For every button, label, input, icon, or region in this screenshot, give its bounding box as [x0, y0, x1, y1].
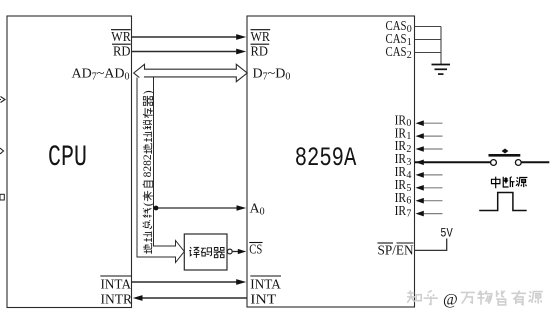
label IR1	[395, 125, 412, 142]
wire IR2	[423, 148, 443, 150]
svg-text:0: 0	[406, 118, 411, 129]
label CAS1	[386, 31, 412, 48]
arrowhead IR3	[416, 160, 424, 166]
wire SP/EN to 5V	[415, 239, 447, 251]
svg-text:7: 7	[406, 209, 411, 220]
label WR right	[251, 30, 271, 45]
watermark 知乎 @万物皆有源	[407, 290, 543, 308]
label INTA left	[101, 278, 132, 293]
label IR6	[395, 190, 412, 207]
wire CAS0	[415, 26, 441, 28]
svg-text:(: (	[141, 202, 155, 206]
label INTA right	[250, 278, 281, 293]
label IR2	[395, 138, 412, 155]
wire INTA	[132, 281, 239, 283]
switch actuator diamond	[502, 149, 509, 154]
label CAS2	[386, 44, 412, 61]
wire RD	[132, 51, 239, 53]
switch blade	[489, 154, 521, 157]
CPU left edge stub square	[0, 194, 4, 200]
svg-text:CAS: CAS	[386, 44, 407, 59]
svg-text:CS: CS	[249, 243, 262, 258]
svg-text:INTA: INTA	[250, 278, 281, 293]
svg-text:2: 2	[406, 144, 411, 155]
CPU label	[48, 140, 87, 174]
switch contact right	[515, 160, 521, 166]
CPU left edge stub arrow 2	[0, 148, 4, 154]
label 5V	[440, 225, 453, 240]
label CAS0	[386, 18, 412, 35]
wire IR6	[423, 200, 443, 202]
ground	[432, 65, 451, 75]
wire switch right	[521, 161, 549, 163]
decoder box	[184, 234, 227, 270]
svg-text:): )	[141, 90, 155, 94]
svg-text:SP/EN: SP/EN	[378, 244, 414, 259]
svg-text:2: 2	[407, 50, 412, 61]
svg-text:INTA: INTA	[101, 278, 132, 293]
pulse waveform	[479, 193, 527, 211]
label IR7	[395, 203, 412, 220]
label IR3	[395, 151, 412, 168]
svg-text:INT: INT	[250, 292, 276, 307]
label WR left	[111, 30, 131, 45]
data bus double arrow AD7~AD0 / D7~D0	[134, 64, 248, 81]
svg-text:6: 6	[406, 196, 411, 207]
svg-text:AD7~AD0: AD7~AD0	[72, 67, 130, 83]
wire IR5	[423, 187, 443, 189]
label 中断源	[491, 177, 527, 189]
label INT right	[250, 292, 276, 307]
wire CAS2	[415, 52, 441, 54]
8259A label	[295, 144, 357, 174]
wire IR3 to switch	[415, 161, 491, 163]
label INTR left	[101, 292, 133, 307]
svg-text:8259A: 8259A	[295, 144, 357, 174]
wire A0	[154, 207, 240, 209]
svg-text:5V: 5V	[440, 225, 453, 240]
svg-text:WR: WR	[251, 30, 271, 45]
label CS	[249, 243, 262, 258]
svg-text:1: 1	[406, 131, 411, 142]
label RD right	[251, 45, 269, 60]
wire CAS1	[415, 39, 441, 41]
wire CS	[232, 251, 240, 253]
wire IR4	[423, 174, 443, 176]
label IR0	[395, 112, 412, 129]
label IR5	[395, 177, 412, 194]
label AD7~AD0	[72, 67, 130, 83]
svg-text:3: 3	[406, 157, 411, 168]
svg-text:RD: RD	[251, 45, 269, 60]
wire IR0	[423, 122, 443, 124]
junction dot A0	[154, 206, 159, 211]
svg-text:WR: WR	[111, 30, 131, 45]
svg-text:@: @	[443, 292, 458, 309]
label SP/EN	[378, 244, 414, 259]
wire IR1	[423, 135, 443, 137]
svg-text:D7~D0: D7~D0	[253, 67, 291, 83]
wire IR7	[423, 213, 443, 215]
label A0	[250, 202, 265, 218]
CPU left edge stub arrow 1	[0, 99, 1, 101]
wire INT	[140, 297, 247, 299]
CPU box	[7, 16, 132, 308]
label IR4	[395, 164, 412, 181]
CS bubble	[227, 249, 232, 254]
svg-text:4: 4	[406, 170, 411, 181]
svg-text:CPU: CPU	[48, 140, 87, 174]
wire WR	[132, 36, 239, 38]
svg-text:INTR: INTR	[101, 292, 133, 307]
8259A box	[247, 16, 415, 307]
svg-text:5: 5	[406, 183, 411, 194]
switch contact left	[491, 160, 497, 166]
label D7~D0	[253, 67, 291, 83]
svg-text:1: 1	[407, 37, 412, 48]
wire CAS to ground	[440, 27, 442, 65]
label RD left	[113, 45, 131, 60]
address bus outline with decoder arrow	[137, 78, 184, 263]
svg-text:8282: 8282	[142, 154, 154, 177]
svg-text:IR: IR	[395, 203, 407, 218]
svg-text:RD: RD	[113, 45, 131, 60]
rotated label 地址总线(来自8282地址锁存器)	[141, 90, 155, 253]
svg-text:0: 0	[407, 24, 412, 35]
decoder label 译码器	[189, 247, 225, 258]
